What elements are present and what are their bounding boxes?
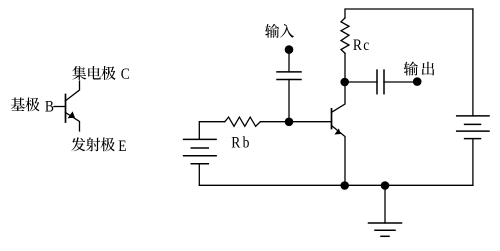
battery B1 (left): long plate 1 [184, 138, 217, 140]
transistor Q legend: base lead [54, 106, 66, 108]
node: input terminal dot [285, 45, 294, 54]
node: ground junction dot on ground rail [381, 181, 390, 190]
wire: right rail down to battery B2 [472, 9, 474, 116]
resistor Rc zigzag [341, 18, 349, 53]
wire: capacitor C1 down to base wire [288, 80, 290, 122]
ground symbol: bar 1 [369, 222, 402, 224]
wire: ground stem [384, 185, 386, 223]
transistor Q1: collector lead [332, 82, 346, 112]
wire: collector dot to capacitor C2 [345, 81, 377, 83]
battery B2: short plate 2 [465, 123, 481, 125]
transistor Q legend: emitter arrow [68, 111, 75, 118]
battery B2: long plate 3 [457, 130, 489, 132]
svg-text:R: R [231, 135, 240, 152]
battery B2 (right): long plate 1 [457, 115, 489, 117]
svg-text:R: R [353, 37, 362, 54]
node: output terminal dot [413, 77, 422, 86]
ground symbol: bar 2 [375, 229, 395, 231]
battery B2: short plate 4 [465, 138, 481, 140]
capacitor C1: top plate [277, 71, 301, 73]
battery B1: short plate 4 [191, 163, 208, 165]
battery B1: short plate 2 [191, 147, 208, 149]
svg-text:B: B [45, 99, 54, 116]
capacitor C1: bottom plate [277, 79, 301, 81]
node: emitter junction dot on ground rail [340, 181, 349, 190]
transistor Q1: base bar [331, 109, 333, 129]
svg-text:c: c [363, 37, 369, 54]
wire: capacitor C2 to output dot [384, 81, 414, 83]
transistor Q1: emitter arrow [334, 128, 340, 134]
resistor Rb zigzag [225, 117, 261, 126]
capacitor C2: right plate [383, 70, 385, 94]
node: collector junction dot [340, 78, 349, 87]
wire: left battery top lead up to base wire [199, 122, 224, 140]
wire: battery B2 bottom lead to ground rail [472, 139, 474, 186]
transistor Q1: emitter lead [332, 126, 346, 186]
ground symbol: bar 3 [381, 235, 389, 237]
wire: bottom ground rail [199, 184, 473, 186]
transistor Q legend: collector lead [66, 81, 80, 101]
battery B1: long plate 3 [184, 155, 217, 157]
wire: Rb to transistor base [261, 121, 332, 123]
svg-text:b: b [243, 135, 250, 152]
wire: input dot down to capacitor C1 [288, 50, 290, 72]
wire: left battery bottom lead [198, 164, 200, 186]
svg-text:E: E [118, 138, 126, 155]
label: 集电极 (collector) [72, 66, 115, 80]
wire: Rc top to supply rail [345, 9, 473, 18]
label: 输入 (input) [265, 24, 294, 38]
node: junction dot C1/base wire [285, 118, 294, 127]
label: 输出 (output) [404, 62, 435, 76]
transistor Q legend: base bar [65, 95, 67, 123]
transistor Q legend: emitter lead [66, 113, 80, 132]
label: 发射极 (emitter) [71, 137, 114, 151]
wire: collector dot up to Rc [344, 53, 346, 82]
capacitor C2: left plate [376, 70, 378, 94]
svg-text:C: C [121, 66, 130, 83]
label: 基极 (base) [11, 97, 40, 111]
